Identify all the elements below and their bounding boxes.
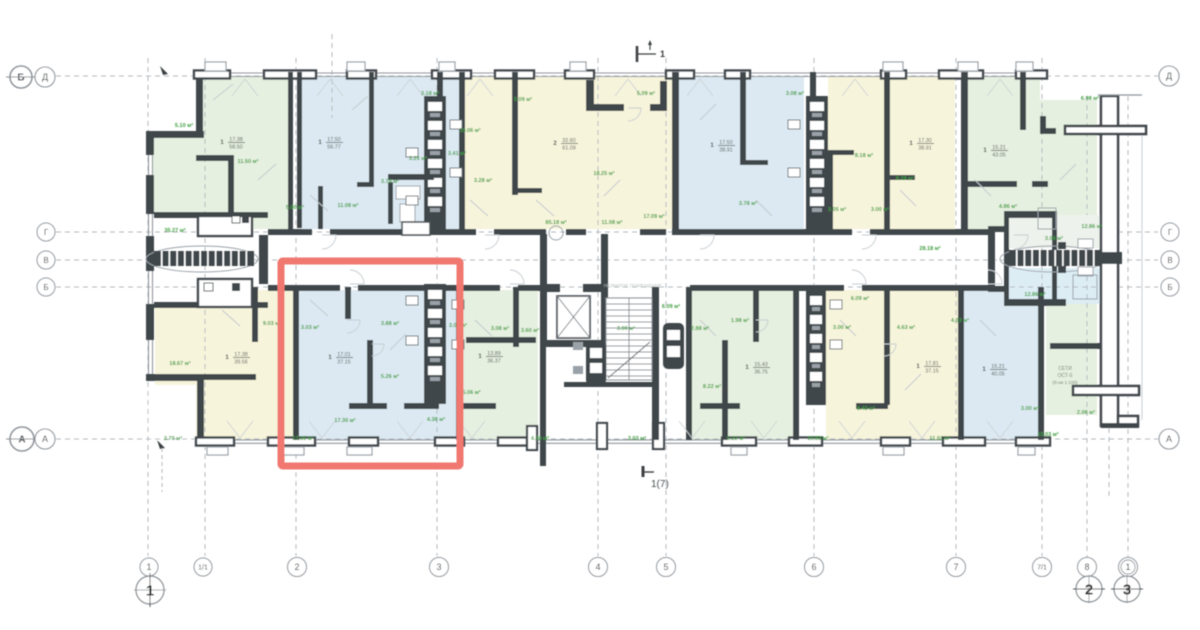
svg-text:17.81: 17.81 [925,361,939,367]
wall apt5-apt6 [961,72,968,230]
svg-text:А: А [42,434,48,444]
corridor upper wall segments [268,229,312,235]
corridor door circle symbol [549,226,563,240]
svg-text:17.50: 17.50 [327,137,341,143]
axis circle 1 right bottom [1119,558,1138,577]
svg-text:8: 8 [1084,562,1089,572]
svg-text:СЕТИ: СЕТИ [1058,366,1072,372]
stub apt3 [512,188,542,193]
svg-text:1: 1 [916,363,920,370]
svg-text:2.70 м²: 2.70 м² [164,435,182,442]
right wing cross lower [1073,386,1139,395]
svg-text:56.77: 56.77 [327,145,341,151]
room fill right wing top green [1040,100,1097,230]
svg-text:36.37: 36.37 [487,359,501,365]
L wall right wing upper vertical [1040,116,1046,134]
fixture shaft stem top 2 [810,72,816,98]
svg-text:6.98 м²: 6.98 м² [1081,95,1099,102]
wall apt6 right top [1020,72,1026,130]
left stair module bottom wall [154,302,268,308]
wall apt10 divider [722,340,728,440]
svg-text:35.27 м²: 35.27 м² [164,227,185,234]
svg-text:38.91: 38.91 [918,146,932,152]
right wing bottom cap [1101,423,1139,428]
vestibule wall horizontal [586,104,624,111]
right stair C-wall bottom arm [988,286,1007,292]
left lower step wall vertical [197,378,204,440]
svg-text:17.38: 17.38 [229,137,243,143]
svg-text:38.91: 38.91 [719,148,733,154]
svg-text:17.30 м²: 17.30 м² [334,417,355,424]
door swings [213,84,233,100]
svg-text:17.01: 17.01 [337,352,351,358]
closet wall apt2 [318,186,323,229]
top outer wall pier caps [194,71,230,79]
axis circle V left [37,251,55,269]
svg-text:6: 6 [811,562,816,572]
svg-text:8.22 м²: 8.22 м² [703,383,721,390]
svg-text:3.00 м²: 3.00 м² [833,324,851,331]
svg-text:7: 7 [953,562,958,572]
svg-text:1: 1 [1125,562,1130,572]
svg-text:Г: Г [1168,228,1173,237]
svg-text:1: 1 [220,139,224,146]
room fill apartment5 room top yellow [876,76,955,229]
svg-text:2.88 м²: 2.88 м² [691,325,709,332]
svg-text:4.63 м²: 4.63 м² [897,324,915,331]
vestibule wall horizontal right [650,104,667,111]
svg-text:3.03 м²: 3.03 м² [628,435,646,442]
middle stair vestibule wall [564,382,652,387]
svg-text:2: 2 [294,562,299,572]
svg-text:3.00 м²: 3.00 м² [1021,405,1039,412]
room fill balcony strip left green [152,137,197,214]
room fill apartment1 top-left green [197,76,293,229]
svg-text:А: А [1166,434,1172,444]
axis circle B right [1161,278,1179,296]
svg-text:85.18 м²: 85.18 м² [545,219,566,226]
svg-text:12.86 м²: 12.86 м² [1081,223,1102,230]
fixture shaft bottom apt8 [424,284,446,404]
left wall hook [146,131,154,155]
wall apt2-apt3 separation [459,72,465,230]
fixture shaft bottom apt11 [806,290,826,405]
axis circle 2 bottom [288,558,307,577]
small wall apt5 hall vertical [828,155,833,229]
svg-text:3.00 м²: 3.00 м² [871,206,889,213]
elevator shaft top wall left [540,284,560,292]
room fill apartment9 bottom green [462,290,538,440]
right stair oval outline [1000,246,1106,272]
svg-text:17.50: 17.50 [719,140,733,146]
svg-text:2: 2 [553,140,557,147]
top facade ledges [205,62,226,71]
svg-text:12.86 м²: 12.86 м² [1024,291,1045,298]
svg-text:Б: Б [43,283,48,292]
stub apt9 bath [462,403,496,409]
wall apt12 right [1038,287,1044,440]
svg-text:3.03 м²: 3.03 м² [301,324,319,331]
right wing cross wall top [1065,126,1146,134]
left staircase steps [154,251,254,266]
svg-text:1: 1 [710,142,714,149]
stub apt5 inner [889,175,915,180]
svg-text:15.21: 15.21 [992,145,1006,151]
svg-text:2: 2 [1085,582,1093,599]
right stair shaft top wall [1004,211,1057,218]
svg-text:1: 1 [983,147,987,154]
svg-text:8.28 м²: 8.28 м² [896,175,914,182]
right staircase steps [1009,250,1102,266]
right wing cross bottom right arm [1118,416,1138,426]
left stair module right pier [259,235,268,284]
svg-text:5.09 м²: 5.09 м² [637,90,655,97]
section marker top [636,46,639,62]
svg-text:Д: Д [1166,71,1172,81]
svg-text:11.50 м²: 11.50 м² [238,158,259,165]
svg-text:1: 1 [909,140,913,147]
svg-text:28.18 м²: 28.18 м² [919,245,940,252]
axis circle 7 bottom [947,558,966,577]
svg-text:(б-ни 1:100): (б-ни 1:100) [1052,380,1078,385]
right wing double wall vertical [1101,96,1118,426]
axis circle 1/1 bottom [194,558,212,576]
left facade pier 1 [146,175,154,214]
svg-text:17.30: 17.30 [918,138,932,144]
elevator shaft left wall [540,284,547,347]
svg-text:8.18 м²: 8.18 м² [855,152,873,159]
wall apt9 divider [513,287,519,347]
right stair landing boxes [1058,242,1066,249]
wall between apt1 and apt2 right leaf [297,72,302,228]
axis circle 6 bottom [805,558,824,577]
svg-text:А: А [18,435,25,446]
svg-text:3.08 м²: 3.08 м² [1045,235,1063,242]
axis circle A left bottom [35,429,55,449]
svg-text:15.03 м²: 15.03 м² [1037,431,1058,438]
svg-text:1: 1 [318,139,322,146]
axis circle G right [1161,223,1179,241]
svg-text:17.09 м²: 17.09 м² [643,213,664,220]
left lower step wall horizontal [146,374,204,381]
svg-text:1: 1 [660,49,665,59]
svg-text:3: 3 [436,562,441,572]
svg-text:5.26 м²: 5.26 м² [381,373,399,380]
svg-text:4.38 м²: 4.38 м² [427,416,445,423]
svg-text:3.05 м²: 3.05 м² [828,206,846,213]
axis circle D left top [35,67,55,87]
svg-text:61.09: 61.09 [562,146,576,152]
svg-text:36.75: 36.75 [754,370,768,376]
window lines outer walls [195,72,1040,74]
room fill apartment12 bottom blue [958,290,1040,440]
right wing stub lower [1050,343,1102,349]
left facade pier 3 [146,304,154,340]
garbage chute left [586,341,606,385]
svg-text:1: 1 [478,353,482,360]
wall apt11-apt12 [958,287,964,440]
room fill apartment6 top green [961,76,1040,229]
room fill apartment3 top yellow [465,76,672,229]
axis circle G left [37,223,55,241]
stub apt10 bath [700,403,740,409]
svg-text:3.18 м²: 3.18 м² [421,90,439,97]
lift lobby wall right [601,234,608,292]
svg-text:32.60: 32.60 [562,138,576,144]
middle stair left wall [540,287,546,466]
left stair module top wall [154,212,268,218]
window diagonal marks top [232,79,245,96]
room fill apartment7 left part yellow [155,308,204,440]
svg-text:17.38: 17.38 [234,352,248,358]
svg-text:Б: Б [1167,283,1172,292]
svg-text:1: 1 [146,583,154,600]
svg-text:3.78 м²: 3.78 м² [381,178,399,185]
axis circle 1 bottom [140,558,158,576]
north arrow top-left [160,66,168,75]
svg-text:В: В [43,256,48,265]
side fixtures basins [406,148,418,157]
right stair shaft light fill above steps [1009,215,1102,248]
apt2 bathroom walls [388,174,434,180]
arrow bottom-left [157,440,165,449]
svg-text:3.28 м²: 3.28 м² [474,177,492,184]
wall apt8 room divider [367,340,373,406]
right stair C-wall vertical [988,226,995,292]
svg-text:4: 4 [595,562,600,572]
svg-text:11.08 м²: 11.08 м² [338,202,359,209]
svg-text:43.05: 43.05 [992,153,1006,159]
axis circle 8 bottom [1078,558,1097,577]
garbage chute right [663,323,684,369]
fixture shaft top apt4 [806,96,828,230]
svg-text:1: 1 [146,562,151,572]
svg-text:1/1: 1/1 [198,565,208,572]
svg-text:10.83 м²: 10.83 м² [807,435,828,442]
room fill apartment5 hall top yellow [828,76,876,229]
svg-text:18.25 м²: 18.25 м² [593,170,614,177]
svg-text:5: 5 [663,562,668,572]
left balcony wall horizontal [146,131,204,138]
svg-text:10.06 м²: 10.06 м² [459,127,480,134]
svg-text:7/1: 7/1 [1037,565,1047,572]
right stair shaft bottom wall [1004,299,1066,306]
lift lobby wall left [540,234,547,292]
wall apt2 bedroom right [369,72,374,187]
wall apt4 bedroom right [740,72,746,164]
bottom outer wall pier segments [196,438,234,446]
axis circle V right [1161,251,1179,269]
left stair shaft box upper [198,216,252,236]
svg-text:39.56: 39.56 [234,360,248,366]
svg-text:3.25 м²: 3.25 м² [409,155,427,162]
bottom porches [207,447,228,455]
corridor lower wall segments [268,285,340,291]
svg-text:5.10 м²: 5.10 м² [175,122,193,129]
wall apt3 bedroom left [512,72,518,195]
room fill apartment8 highlighted blue [299,290,460,440]
axis circle D right top [1159,66,1179,86]
svg-text:17.35 м²: 17.35 м² [292,435,313,442]
wall apt6 hallway [967,181,1017,187]
room fill apartment7 bottom-left yellow [204,290,293,440]
wall apt7 lower room [204,374,256,380]
wall apt6 hallway right [1032,181,1048,187]
svg-text:40.05: 40.05 [991,372,1005,378]
room fill apartment10 bottom green [692,290,793,440]
stub apt11 bath [856,403,888,409]
svg-text:ОСТ-5: ОСТ-5 [1058,373,1073,379]
svg-text:58.50: 58.50 [229,145,243,151]
svg-text:4.86 м²: 4.86 м² [999,203,1017,210]
axis circle A bold left bottom [10,427,34,451]
right stair C-wall top arm [988,226,1007,232]
room fill apartment2 top blue [302,76,460,229]
wall apt9 bathroom horizontal [466,337,536,343]
svg-text:3.08 м²: 3.08 м² [786,90,804,97]
svg-text:3: 3 [1123,582,1131,599]
svg-text:11.08 м²: 11.08 м² [602,219,623,226]
left stair shaft box lower [198,279,252,307]
svg-text:11.01 м²: 11.01 м² [930,435,951,442]
svg-text:13.89: 13.89 [487,351,501,357]
axis circle 3 bottom [430,558,449,577]
stub apt8 bath right [404,403,439,409]
left wall top apartment [196,79,203,135]
svg-text:3.60 м²: 3.60 м² [521,327,539,334]
svg-text:Д: Д [42,72,48,82]
svg-text:15.21: 15.21 [991,364,1005,370]
svg-text:1.98 м²: 1.98 м² [731,317,749,324]
wall apt10 hall [753,287,759,342]
stub apt8 bath left [349,403,387,409]
room fill right stair vestibule lightblue [1009,268,1102,304]
axis circle 4 bottom [589,558,608,577]
white outside lower-left corner [146,385,196,440]
svg-text:6.09 м²: 6.09 м² [662,303,680,310]
wc unit on corridor wall [402,222,430,235]
left stair oval outline [146,246,258,272]
stub apt2 closet [357,182,374,187]
svg-text:37.15: 37.15 [925,369,939,375]
wall apt1 inner room vertical [228,155,234,230]
vestibule wall top middle [586,80,594,108]
svg-text:5.00 м²: 5.00 м² [286,204,304,211]
axis circle 7/1 bottom [1033,558,1052,577]
elevator shaft bottom wall [540,340,608,347]
svg-text:3.78 м²: 3.78 м² [739,200,757,207]
wall apt10-apt11 [793,287,799,440]
wall apt3-apt4 on axis 5 [672,72,679,230]
svg-text:1: 1 [328,354,332,361]
svg-text:2.06 м²: 2.06 м² [1077,409,1095,416]
room fill apartment11 bottom yellow [826,290,958,440]
svg-text:5.22 м²: 5.22 м² [727,435,745,442]
stub apt5 bath [806,150,854,155]
svg-text:5.09 м²: 5.09 м² [514,96,532,103]
stub apt4 closet [740,160,768,165]
vestibule wall right vertical [660,81,667,107]
svg-text:4.30 м²: 4.30 м² [531,435,549,442]
wall apt10 left [686,287,692,440]
door swing arcs [322,235,336,249]
svg-text:Г: Г [44,228,49,237]
svg-text:6.09 м²: 6.09 м² [851,295,869,302]
window diagonal marks bottom [227,421,240,438]
right stair shaft right wall [1052,211,1057,306]
wall apt4-apt5 [884,72,890,230]
wall apt7-apt8 (red apt left) [293,287,299,440]
svg-text:3.00 м²: 3.00 м² [617,325,635,332]
wall apt11 divider [884,287,890,405]
bold section circles [136,576,164,604]
svg-text:Б: Б [17,73,24,84]
svg-text:3.08 м²: 3.08 м² [491,325,509,332]
middle staircase treads [606,298,652,380]
fixture shaft top apt2 [424,96,446,230]
wall between apt1 and apt2 left leaf [288,72,293,230]
L wall right wing upper horizontal [1040,128,1056,134]
svg-text:1: 1 [225,354,229,361]
svg-text:4.03 м²: 4.03 м² [951,317,969,324]
elevator shaft top wall right [583,284,608,292]
svg-text:8.43 м²: 8.43 м² [857,405,875,412]
axis circle B left [37,278,55,296]
svg-text:1(7): 1(7) [651,479,669,490]
wall apt1 inner room horizontal [196,155,230,161]
entrance door jambs middle [527,426,537,450]
right wing top thin line [1098,94,1142,96]
red highlight rectangle around apartment8 [281,261,460,466]
svg-text:В: В [1167,256,1172,265]
wall apt7 hall [252,287,258,342]
section marker bottom [642,466,645,477]
svg-text:18.67 м²: 18.67 м² [169,360,190,367]
svg-text:3.41 м²: 3.41 м² [448,150,466,157]
room fill right wing bottom green [1046,290,1097,415]
right wing stub at axis V [1098,252,1122,264]
svg-text:1: 1 [745,364,749,371]
axis circle B bold left top [10,66,32,88]
axis circle 5 bottom [657,558,676,577]
left facade pier 2 [146,236,154,271]
axis grid dashed lines [56,75,1158,77]
axis circle A right bottom [1159,429,1179,449]
right stair shaft left wall [1004,211,1009,306]
svg-text:1: 1 [982,366,986,373]
stub apt8 entry [345,287,351,319]
fixture shaft stem top [437,72,443,98]
svg-text:3.88 м²: 3.88 м² [381,320,399,327]
svg-text:НЕЖИЛОЕ ПОМЕЩЕНИЕ: НЕЖИЛОЕ ПОМЕЩЕНИЕ [604,283,662,289]
middle stair right wall [652,287,659,440]
elevator shaft right wall [601,284,608,347]
room fill apartment4 top blue [679,76,804,229]
wall apt8-apt9 (red apt right) [456,287,462,440]
svg-text:37.15: 37.15 [337,360,351,366]
middle elevator cab [557,296,590,338]
svg-text:15.43: 15.43 [754,362,768,368]
